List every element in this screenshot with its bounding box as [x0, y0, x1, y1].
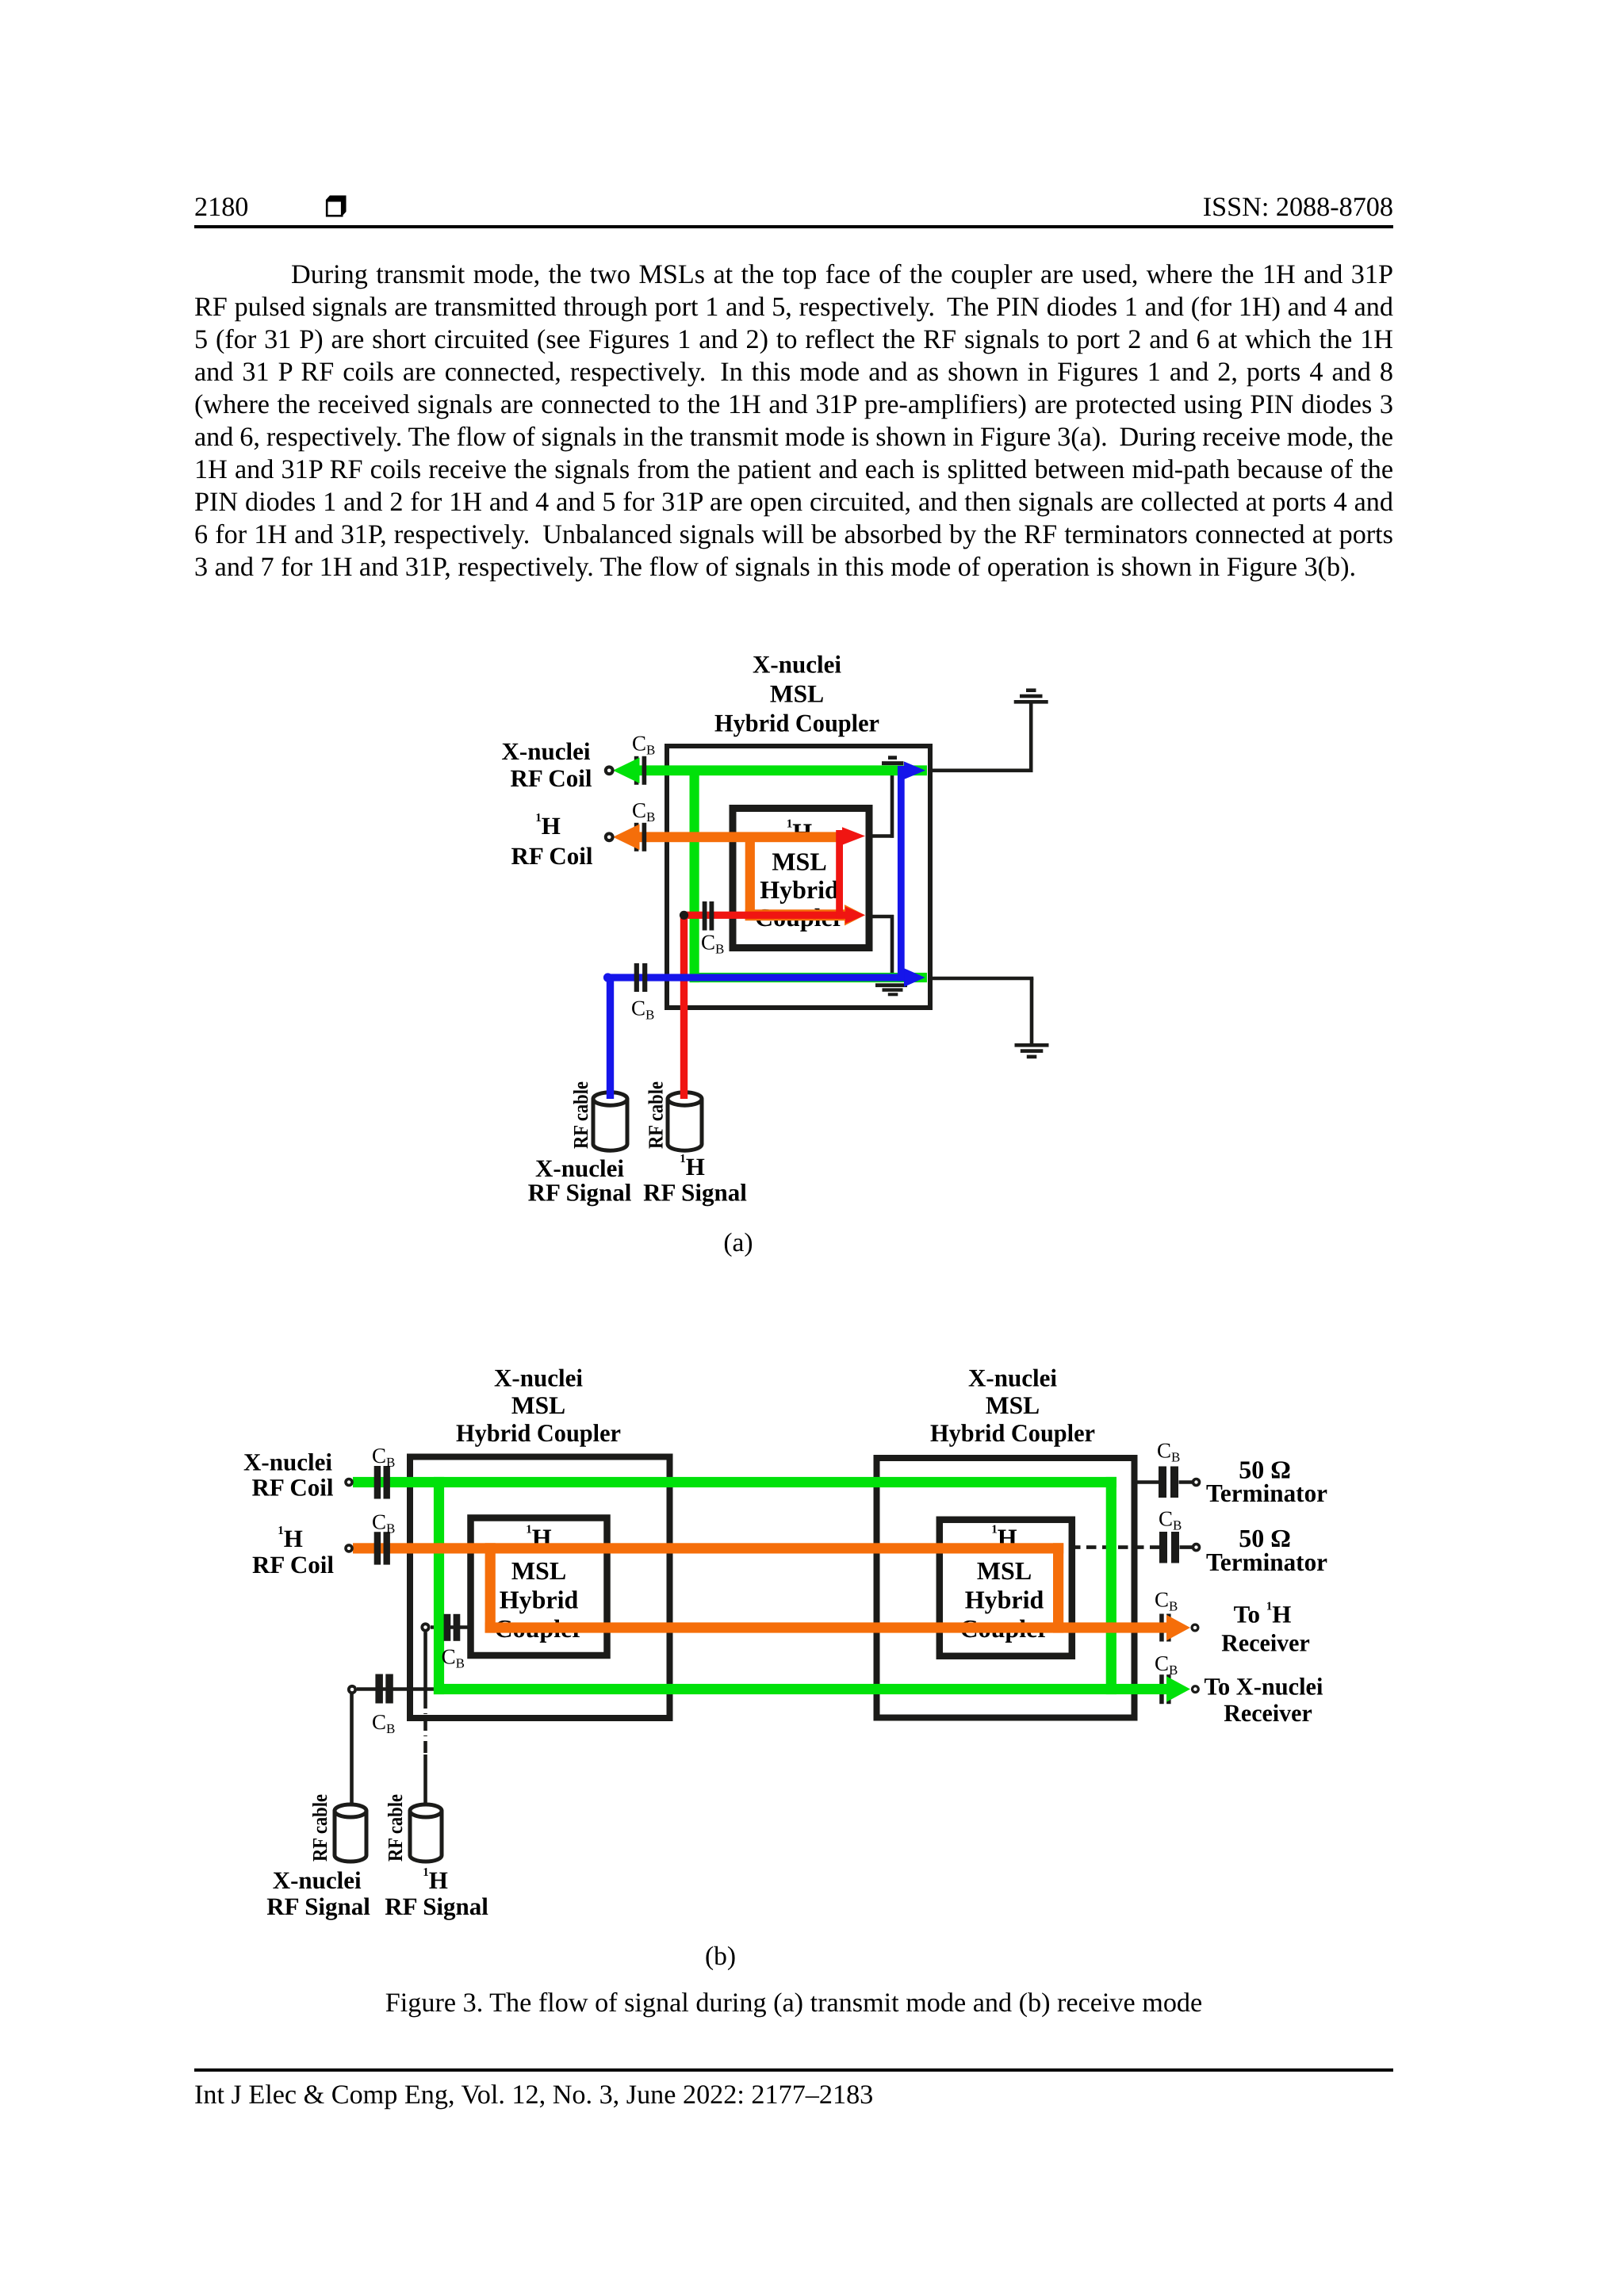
svg-text:MSL: MSL	[986, 1391, 1040, 1419]
svg-text:CB: CB	[701, 931, 724, 957]
svg-text:1H: 1H	[680, 1153, 705, 1181]
svg-text:MSL: MSL	[511, 1556, 566, 1585]
svg-text:Hybrid Coupler: Hybrid Coupler	[930, 1419, 1095, 1447]
svg-text:X-nuclei: X-nuclei	[494, 1364, 583, 1392]
svg-text:CB: CB	[372, 1710, 395, 1736]
svg-text:CB: CB	[631, 997, 654, 1023]
svg-text:CB: CB	[1159, 1507, 1182, 1533]
svg-text:Hybrid: Hybrid	[965, 1586, 1044, 1614]
svg-text:(b): (b)	[705, 1942, 736, 1971]
svg-text:CB: CB	[1157, 1439, 1180, 1465]
svg-text:Hybrid Coupler: Hybrid Coupler	[456, 1419, 621, 1447]
svg-text:1H: 1H	[535, 812, 561, 840]
svg-text:1H: 1H	[278, 1525, 303, 1552]
svg-text:RF Signal: RF Signal	[643, 1179, 747, 1207]
svg-text:RF Signal: RF Signal	[266, 1892, 370, 1920]
svg-text:CB: CB	[372, 1510, 395, 1536]
svg-text:CB: CB	[372, 1444, 395, 1470]
svg-text:CB: CB	[1155, 1651, 1178, 1678]
svg-text:MSL: MSL	[511, 1391, 565, 1419]
svg-text:MSL: MSL	[770, 680, 824, 708]
svg-text:RF Coil: RF Coil	[511, 842, 592, 870]
svg-text:Receiver: Receiver	[1221, 1629, 1310, 1657]
svg-text:To X-nuclei: To X-nuclei	[1205, 1673, 1323, 1701]
svg-text:Hybrid: Hybrid	[760, 875, 839, 904]
svg-text:1H: 1H	[423, 1866, 448, 1894]
svg-text:Terminator: Terminator	[1206, 1479, 1327, 1507]
svg-text:RF cable: RF cable	[384, 1794, 407, 1862]
svg-text:(a): (a)	[723, 1228, 753, 1257]
svg-text:Receiver: Receiver	[1224, 1699, 1312, 1727]
svg-text:Terminator: Terminator	[1206, 1548, 1327, 1576]
svg-text:Hybrid: Hybrid	[500, 1586, 579, 1614]
svg-text:CB: CB	[442, 1645, 465, 1671]
svg-text:MSL: MSL	[977, 1556, 1032, 1585]
svg-text:RF Coil: RF Coil	[510, 764, 592, 792]
svg-text:CB: CB	[632, 798, 655, 825]
svg-text:RF cable: RF cable	[569, 1081, 592, 1149]
svg-text:RF cable: RF cable	[308, 1794, 331, 1862]
svg-text:To 1H: To 1H	[1234, 1600, 1292, 1628]
svg-text:RF Signal: RF Signal	[528, 1179, 632, 1207]
svg-text:CB: CB	[632, 732, 655, 758]
svg-text:Hybrid Coupler: Hybrid Coupler	[714, 710, 879, 737]
svg-text:RF cable: RF cable	[645, 1081, 668, 1149]
svg-text:X-nuclei: X-nuclei	[968, 1364, 1057, 1392]
svg-text:RF Signal: RF Signal	[385, 1892, 488, 1920]
svg-text:MSL: MSL	[772, 848, 826, 876]
svg-text:X-nuclei: X-nuclei	[243, 1448, 332, 1476]
svg-text:RF Coil: RF Coil	[251, 1474, 333, 1502]
svg-text:CB: CB	[1155, 1588, 1178, 1614]
svg-text:X-nuclei: X-nuclei	[753, 651, 841, 679]
svg-text:RF Coil: RF Coil	[252, 1551, 334, 1578]
svg-text:X-nuclei: X-nuclei	[273, 1866, 362, 1894]
svg-text:X-nuclei: X-nuclei	[502, 737, 591, 765]
